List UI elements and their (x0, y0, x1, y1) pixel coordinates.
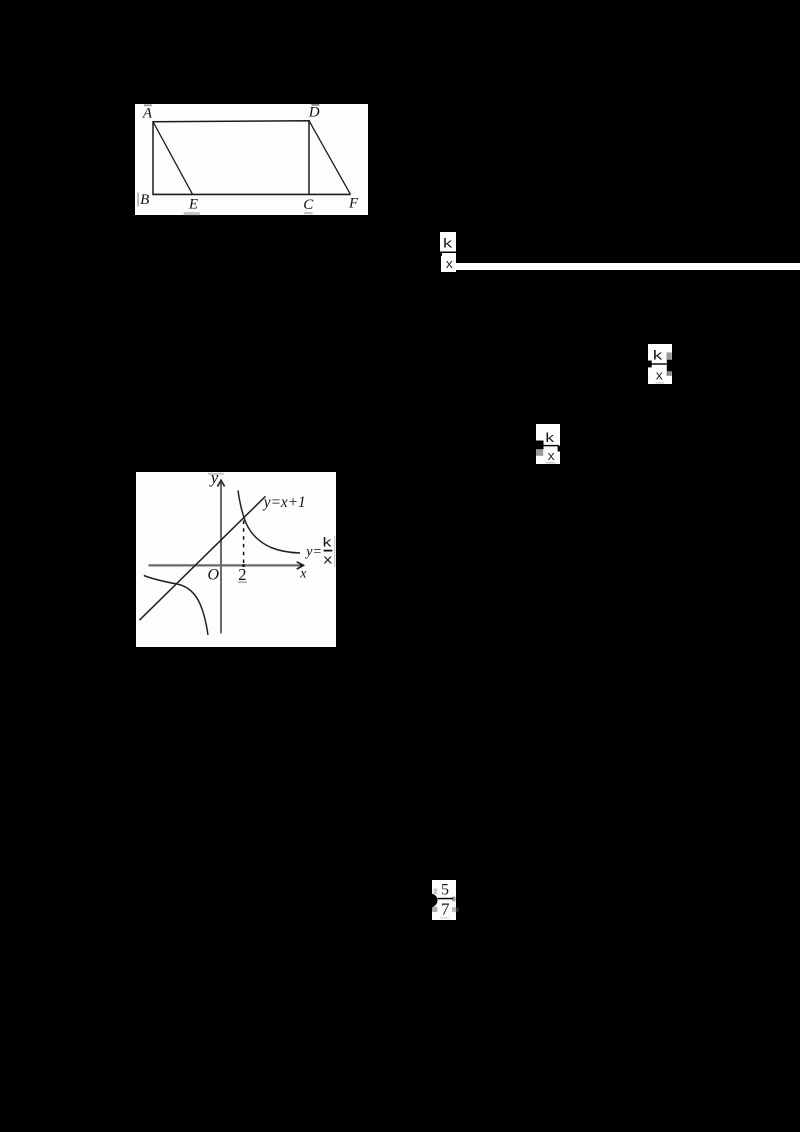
x-axis (149, 564, 301, 566)
gray artifact marks (208, 472, 224, 474)
svg-text:O: O (208, 566, 220, 583)
line y=x+1 (139, 496, 265, 620)
formula image 5/7 (432, 880, 456, 920)
svg-text:y: y (209, 472, 219, 487)
svg-text:5: 5 (441, 881, 449, 898)
svg-text:x: x (445, 257, 453, 272)
hyperbola first quadrant branch (238, 490, 300, 553)
svg-text:y: y (304, 544, 313, 559)
svg-text:x: x (299, 566, 307, 581)
hyperbola third quadrant branch (144, 575, 208, 635)
svg-text:2: 2 (238, 565, 246, 584)
svg-text:C: C (303, 197, 314, 213)
y-axis arrowhead (217, 480, 224, 486)
svg-text:A: A (142, 105, 153, 121)
labels (140, 104, 359, 213)
cevian D to F (309, 120, 351, 194)
formula image k/x #3 (536, 424, 560, 464)
x-axis arrowhead (297, 561, 304, 568)
figure 1: geometry rectangle ABCD with E on BC and F beyond C (135, 104, 368, 215)
labels (208, 468, 322, 584)
svg-text:k: k (442, 237, 453, 252)
svg-text:x: x (655, 368, 663, 383)
dashed line x=2 (243, 520, 245, 564)
bottom line B to F (152, 193, 350, 195)
gray artifact marks (144, 104, 152, 106)
black paren intruding from left (432, 893, 438, 907)
formula image k/x #2 (648, 344, 672, 385)
cevian A to E (153, 121, 193, 194)
svg-text:x: x (547, 449, 555, 464)
svg-text:F: F (348, 195, 359, 211)
svg-text:E: E (188, 196, 198, 212)
dot where dashed line meets axis (242, 564, 245, 567)
svg-text:y=x+1: y=x+1 (262, 493, 306, 510)
y-axis (220, 480, 222, 633)
svg-text:=: = (313, 544, 321, 559)
svg-text:D: D (308, 104, 320, 120)
svg-text:k: k (652, 349, 663, 363)
svg-text:k: k (322, 535, 333, 550)
rectangle ABCD (153, 120, 309, 194)
figure 2: graph of y=k/x and y=x+1 (136, 472, 336, 648)
svg-text:k: k (544, 431, 555, 446)
svg-text:x: x (323, 553, 333, 567)
formula image k/x #1 with long blank underline (440, 232, 457, 252)
svg-text:B: B (140, 192, 149, 208)
svg-text:7: 7 (441, 899, 450, 918)
